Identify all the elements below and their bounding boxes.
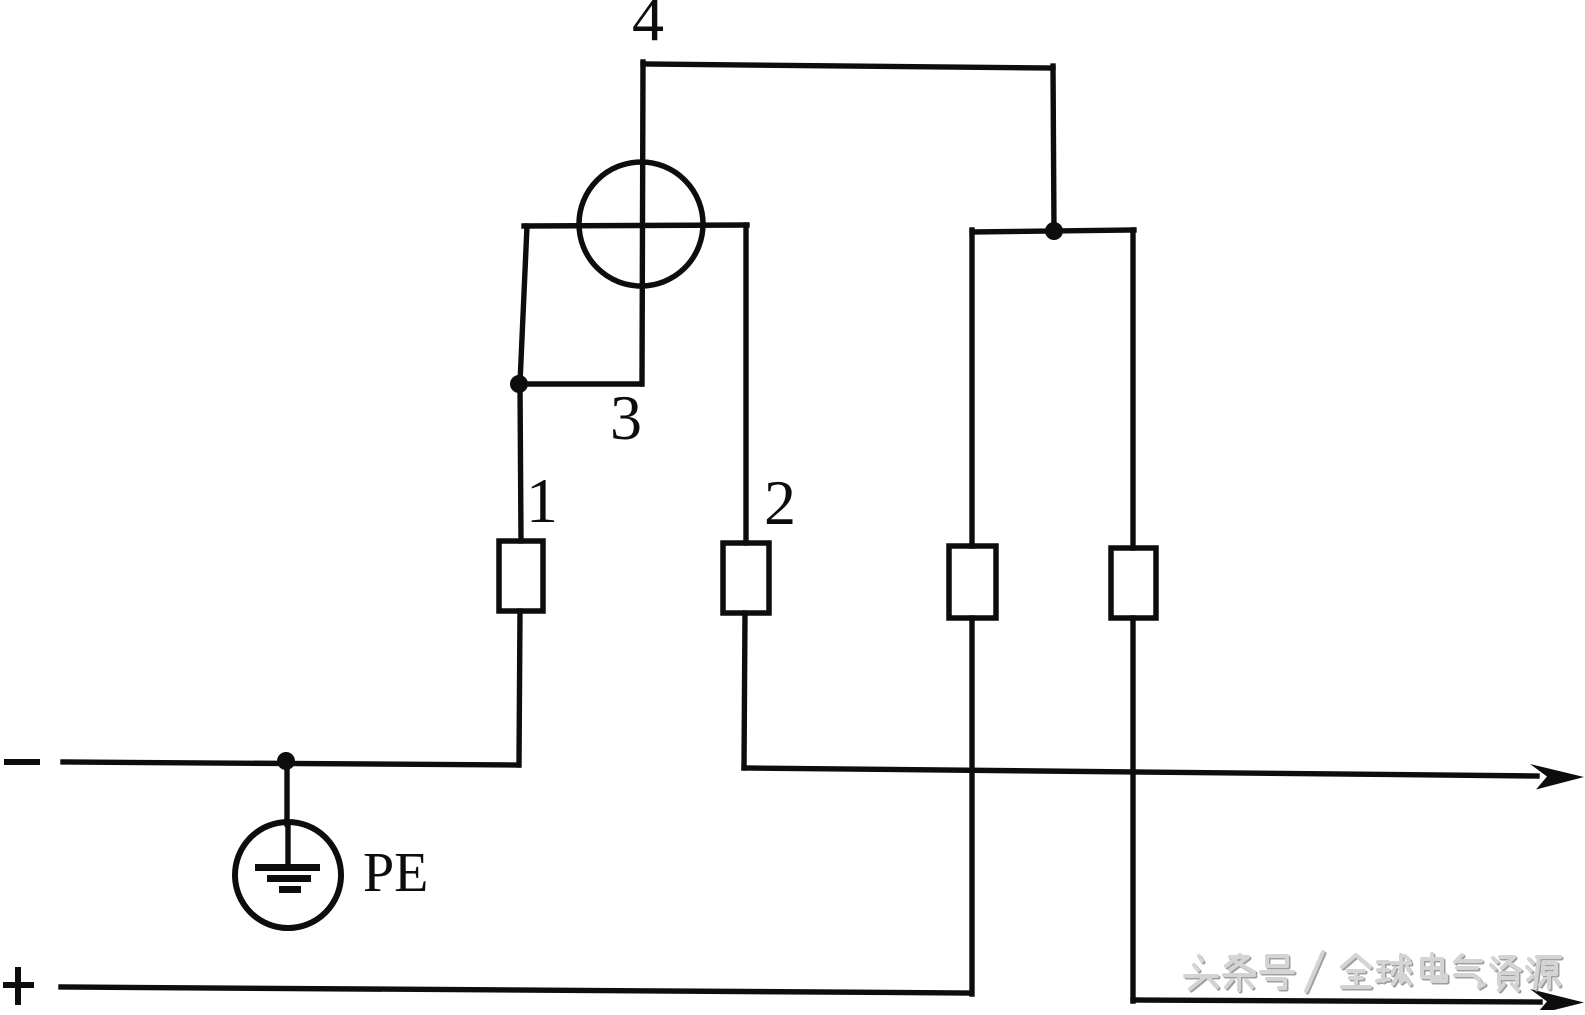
wire PE drop [284,761,289,824]
fuse F4 [1111,548,1156,618]
wire top voltage link from meter to junction [643,64,1053,68]
fuse F3 [949,546,996,618]
node junction dot right [1045,222,1063,240]
wire left vertical from coil line down to node 3 [520,226,527,383]
earth electrode circle PE [235,822,341,928]
wire plus bus right segment to load [1133,1000,1540,1002]
node junction dot PE tap [277,752,295,770]
fuse F1 [499,541,543,611]
node junction dot 3 [510,375,528,393]
watermark 头条号 / 全球电气资源 [1185,952,1562,993]
svg-text:PE: PE [363,842,428,904]
wire vertical drop to node [1053,66,1054,231]
earth bar 1 [255,864,320,871]
meter coil circle [579,162,703,286]
wire minus bus right segment to load [744,768,1537,776]
arrowhead plus bus [1530,989,1584,1015]
svg-text:1: 1 [526,465,558,536]
wire terminal 1 lower [519,611,520,765]
plus polarity sign [3,967,34,1005]
arrowhead minus bus [1530,764,1584,790]
wire terminal 1 upper [520,384,521,541]
wire horizontal of node 3 [519,381,641,386]
earth bar 3 [279,886,301,893]
earth inner stem [285,824,290,866]
fuse F2 [723,543,769,613]
wire terminal 2 upper [743,225,748,543]
wire top-right rail [972,230,1134,232]
wire terminal 4 upper [1130,230,1135,548]
svg-text:2: 2 [764,467,796,538]
wire terminal 3 upper [969,230,974,546]
wire terminal 2 lower [744,613,745,768]
earth bar 2 [267,875,311,882]
wire minus bus left segment [63,762,518,765]
svg-text:3: 3 [610,382,642,453]
wire terminal 4 lower [1130,618,1135,1001]
wire terminal 3 lower [969,618,974,994]
svg-text:4: 4 [632,0,664,54]
wire meter vertical through coil [642,62,643,384]
wire meter horizontal through coil [524,225,747,226]
wire plus bus left segment [61,987,970,993]
minus polarity sign [4,759,40,765]
